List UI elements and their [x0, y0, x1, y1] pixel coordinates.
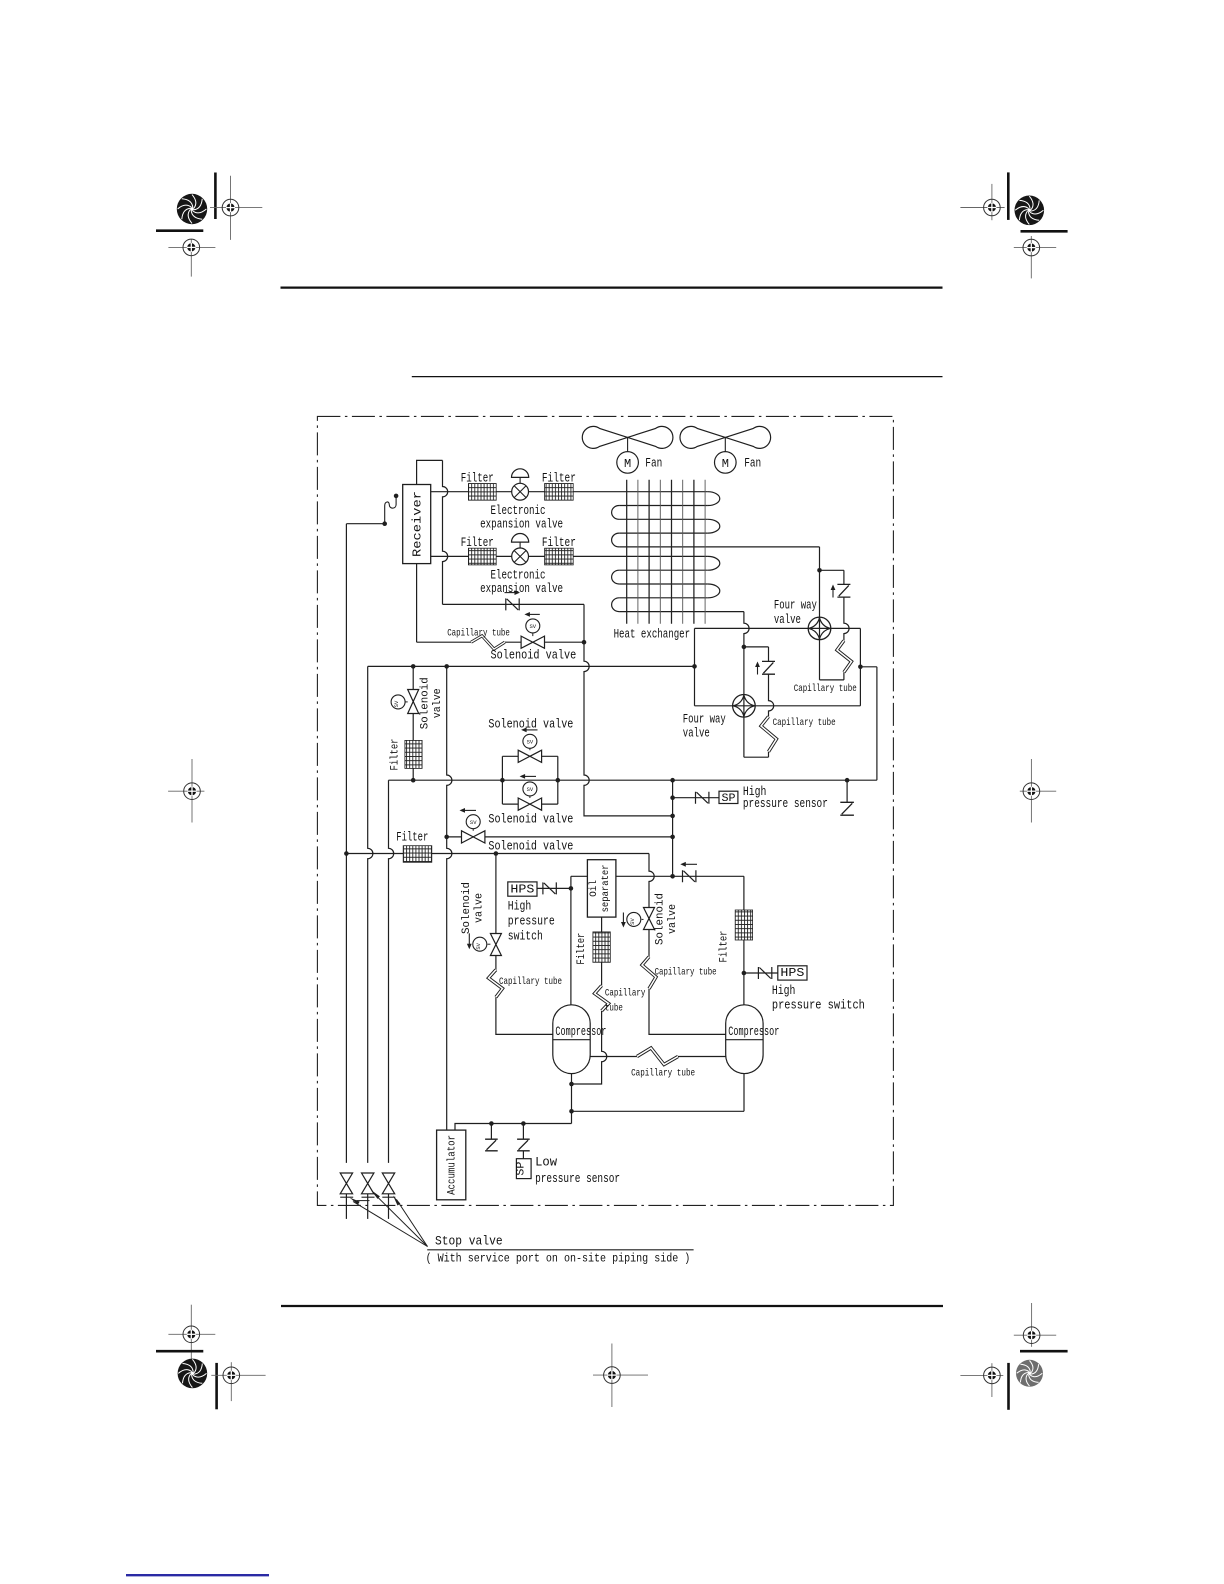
svg-text:Low: Low: [535, 1156, 557, 1170]
svg-text:Capillary: Capillary: [605, 988, 646, 1000]
svg-text:expansion valve: expansion valve: [480, 582, 563, 596]
svg-text:Capillary tube: Capillary tube: [631, 1068, 695, 1080]
svg-text:High: High: [508, 900, 532, 914]
svg-text:SP: SP: [516, 1161, 528, 1175]
svg-text:Fan: Fan: [645, 456, 662, 471]
svg-text:Filter: Filter: [542, 536, 576, 550]
svg-text:Electronic: Electronic: [491, 504, 546, 518]
svg-text:valve: valve: [774, 613, 801, 627]
svg-text:Stop valve: Stop valve: [435, 1235, 503, 1249]
svg-text:Solenoid valve: Solenoid valve: [488, 717, 573, 731]
svg-text:Capillary tube: Capillary tube: [773, 717, 836, 729]
svg-text:Capillary tube: Capillary tube: [655, 967, 717, 979]
svg-text:Filter: Filter: [461, 471, 494, 485]
svg-text:Four way: Four way: [683, 713, 726, 727]
svg-text:Heat exchanger: Heat exchanger: [614, 627, 691, 641]
svg-text:M: M: [624, 457, 631, 471]
svg-text:Filter: Filter: [389, 739, 401, 771]
svg-text:Oil: Oil: [588, 880, 600, 897]
svg-text:Capillary tube: Capillary tube: [794, 683, 857, 695]
svg-text:Electronic: Electronic: [491, 569, 546, 583]
svg-text:Solenoid valve: Solenoid valve: [491, 648, 577, 662]
svg-text:( With service port on on-site: ( With service port on on-site piping si…: [426, 1252, 691, 1266]
svg-text:SP: SP: [722, 793, 736, 805]
svg-text:SV: SV: [527, 786, 534, 793]
svg-text:Capillary tube: Capillary tube: [499, 976, 562, 988]
svg-text:SV: SV: [393, 700, 400, 707]
svg-text:HPS: HPS: [510, 883, 534, 896]
svg-text:Four way: Four way: [774, 599, 817, 613]
svg-text:M: M: [722, 457, 729, 471]
svg-text:Capillary tube: Capillary tube: [447, 628, 510, 640]
svg-text:pressure sensor: pressure sensor: [535, 1172, 620, 1186]
svg-text:High: High: [772, 984, 796, 998]
svg-text:Filter: Filter: [542, 471, 576, 485]
svg-text:Solenoid: Solenoid: [654, 893, 666, 945]
svg-text:SV: SV: [529, 623, 536, 630]
svg-text:Filter: Filter: [461, 536, 494, 550]
svg-text:Accumulator: Accumulator: [446, 1135, 458, 1195]
svg-text:tube: tube: [605, 1003, 623, 1015]
svg-text:valve: valve: [683, 726, 710, 740]
svg-text:SV: SV: [475, 942, 482, 949]
svg-text:Solenoid: Solenoid: [420, 677, 432, 729]
svg-text:valve: valve: [473, 893, 485, 923]
svg-text:Receiver: Receiver: [412, 491, 425, 557]
svg-text:valve: valve: [667, 904, 679, 934]
svg-text:SV: SV: [527, 738, 534, 745]
svg-text:separater: separater: [600, 864, 612, 912]
svg-text:Compressor: Compressor: [728, 1025, 779, 1039]
svg-text:HPS: HPS: [780, 967, 804, 980]
svg-text:pressure sensor: pressure sensor: [743, 797, 828, 811]
svg-text:Filter: Filter: [576, 933, 588, 965]
svg-text:pressure switch: pressure switch: [772, 999, 865, 1013]
svg-text:valve: valve: [432, 688, 444, 718]
svg-text:expansion valve: expansion valve: [480, 518, 563, 532]
svg-text:Filter: Filter: [396, 831, 428, 845]
svg-text:SV: SV: [470, 819, 477, 826]
svg-text:switch: switch: [508, 929, 543, 943]
svg-text:Solenoid: Solenoid: [461, 882, 473, 934]
svg-text:Filter: Filter: [719, 931, 731, 963]
svg-text:Solenoid valve: Solenoid valve: [488, 839, 573, 853]
svg-text:Fan: Fan: [744, 456, 761, 471]
svg-text:SV: SV: [629, 918, 636, 925]
svg-text:pressure: pressure: [508, 914, 555, 928]
svg-text:Compressor: Compressor: [555, 1025, 606, 1039]
svg-text:Solenoid valve: Solenoid valve: [488, 812, 573, 826]
